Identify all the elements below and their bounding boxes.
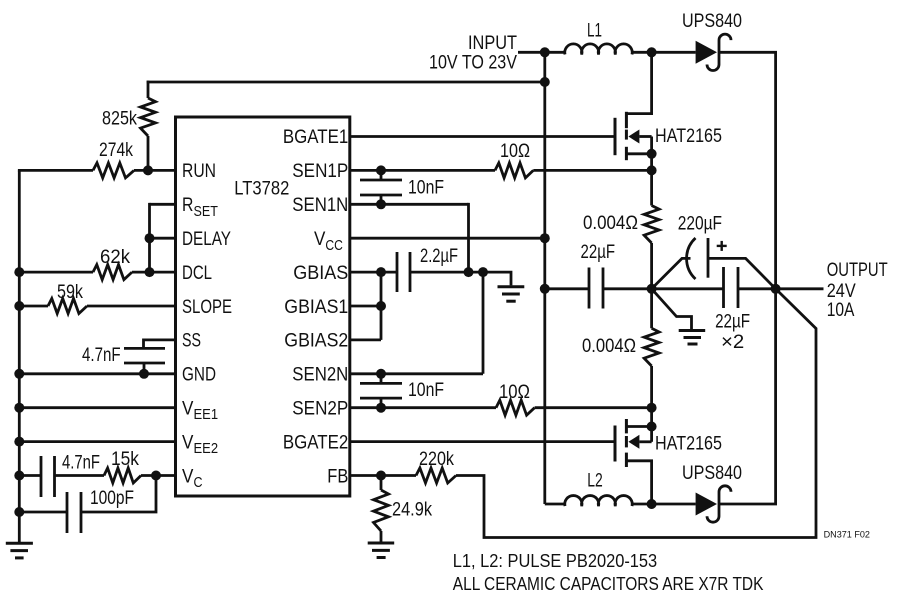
node Q1 source (647, 149, 657, 159)
label input voltage 10V TO 23V (429, 53, 517, 74)
pin label DCL (182, 263, 212, 284)
svg-text:4.7nF: 4.7nF (82, 345, 121, 366)
svg-text:×2: ×2 (721, 332, 744, 353)
capacitor C 2.2uF (397, 252, 410, 292)
transistor Q2 source stub (626, 461, 651, 504)
wire BGATE2 to Q2 gate (350, 440, 615, 443)
svg-text:SEN2P: SEN2P (292, 399, 348, 420)
pin label SLOPE (182, 297, 232, 318)
svg-text:DELAY: DELAY (182, 229, 231, 250)
wire 22uF to center node (603, 287, 652, 290)
pin label GBIAS (293, 263, 348, 284)
ground left rail (6, 543, 33, 558)
resistor R 24.9k (374, 476, 389, 532)
label 10nF top (408, 178, 444, 199)
wire input stub (518, 51, 545, 54)
pin label GND (182, 365, 216, 386)
node input (540, 47, 550, 57)
note L1 L2 PULSE (453, 550, 657, 571)
node Q2 drain stub (647, 422, 657, 432)
pin label FB (327, 466, 348, 487)
node SEN2N junction (376, 369, 386, 379)
svg-text:24V: 24V (827, 281, 856, 302)
diode D2 UPS840 (696, 486, 731, 522)
pin label VC (182, 466, 203, 491)
transistor Q2 channel segments (625, 419, 628, 467)
wire SEN2N pin (350, 372, 483, 375)
label UPS840 bottom (682, 463, 742, 484)
svg-text:24.9k: 24.9k (392, 500, 432, 521)
pin label VCC (314, 229, 343, 254)
resistor R 825k (141, 98, 156, 136)
label 24V (827, 281, 856, 302)
wire input rail to 22uF (545, 287, 589, 290)
wire 10ohm to Q1 source (533, 169, 651, 172)
wire output rail lower (774, 289, 777, 504)
wire 62k to DCL pin (132, 271, 176, 274)
node L2 switch (647, 499, 657, 509)
wire drain node to diode D1 (652, 51, 696, 54)
label 2.2uF (420, 246, 458, 267)
pin label SEN1P (292, 161, 348, 182)
label x2 (721, 332, 744, 353)
svg-text:HAT2165: HAT2165 (655, 433, 722, 454)
label 4.7nF compensation (62, 453, 100, 474)
svg-text:GBIAS: GBIAS (293, 263, 348, 284)
svg-text:62k: 62k (100, 247, 130, 268)
svg-text:L1: L1 (587, 21, 602, 42)
svg-text:10nF: 10nF (408, 380, 444, 401)
svg-text:22µF: 22µF (581, 242, 616, 263)
svg-text:SEN1N: SEN1N (292, 195, 348, 216)
capacitor C 10nF sense2 (360, 374, 402, 408)
svg-text:10A: 10A (827, 300, 855, 321)
svg-text:220k: 220k (419, 449, 454, 470)
svg-text:10nF: 10nF (408, 178, 444, 199)
node DELAY junction (145, 233, 155, 243)
transistor Q1 HAT2165 gate bar (614, 118, 617, 155)
label INPUT (468, 33, 517, 54)
svg-text:SET: SET (194, 203, 218, 220)
diode D1 UPS840 (696, 34, 731, 70)
capacitor C 100pF (67, 492, 81, 533)
wire SEN2P pin to 10ohm (350, 406, 496, 409)
node VCC input rail (540, 233, 550, 243)
wire output rail upper (774, 52, 777, 288)
svg-text:10Ω: 10Ω (499, 382, 530, 403)
svg-text:15k: 15k (111, 449, 139, 470)
label 10nF bottom (408, 380, 444, 401)
wire 4.7nF to 15k (55, 474, 105, 477)
wire 24.9k to ground (380, 531, 383, 542)
node GBIAS junction (376, 267, 386, 277)
node SLOPE left rail (14, 301, 24, 311)
wire node diagonal to 220uF (652, 258, 691, 288)
node L1 drain junction (647, 47, 657, 57)
capacitor C 220uF curved plate (687, 238, 696, 279)
svg-text:V: V (314, 229, 326, 250)
node GBIAS1 junction (376, 301, 386, 311)
svg-text:GND: GND (182, 365, 216, 386)
node center (647, 284, 657, 294)
svg-text:DCL: DCL (182, 263, 212, 284)
ic U1 LT3782 box (176, 117, 350, 496)
svg-text:10V TO 23V: 10V TO 23V (429, 53, 517, 74)
wire 15k to VC pin (141, 474, 176, 477)
label 62k (100, 247, 130, 268)
svg-text:EE1: EE1 (194, 406, 219, 423)
wire VEE1 pin (19, 406, 175, 409)
resistor R 0.004ohm top (644, 206, 659, 244)
wire SEN1P pin to 10ohm (350, 169, 495, 172)
label 22uF input (581, 242, 616, 263)
svg-text:C: C (194, 474, 203, 491)
wire node to ground (652, 289, 692, 330)
node SEN1P junction (376, 165, 386, 175)
pin label VEE2 (182, 433, 218, 458)
ground 24.9k (368, 543, 395, 558)
svg-text:UPS840: UPS840 (682, 463, 742, 484)
node DCL junction (145, 267, 155, 277)
label 4.7nF soft-start (82, 345, 121, 366)
transistor Q2 HAT2165 gate bar (614, 426, 617, 462)
wire 825k bottom to RUN (147, 136, 150, 170)
wire sense1 to node (650, 243, 653, 328)
wire GBIAS2 vertical tie (380, 272, 383, 340)
pin label GBIAS2 (284, 331, 348, 352)
wire GND pin (19, 372, 175, 375)
node 100pF left rail (14, 507, 24, 517)
wire D2 cathode to output rail (719, 503, 777, 506)
svg-text:OUTPUT: OUTPUT (827, 260, 888, 281)
svg-text:0.004Ω: 0.004Ω (583, 213, 638, 234)
svg-text:274k: 274k (99, 140, 133, 161)
label 22uF x2 (715, 312, 750, 333)
label 59k (57, 282, 83, 303)
label 220uF (678, 214, 722, 235)
wire 274k to RUN pin (134, 169, 176, 172)
node DCL left rail (14, 267, 24, 277)
node input rail top wire (540, 77, 550, 87)
svg-text:SS: SS (182, 331, 201, 352)
wire RSET pin stub (150, 203, 176, 206)
label 100pF (90, 488, 134, 509)
svg-text:EE2: EE2 (194, 440, 219, 457)
label 15k (111, 449, 139, 470)
wire SEN1N to GBIAS node (467, 203, 470, 272)
pin label DELAY (182, 229, 231, 250)
wire DCL left segment (19, 271, 93, 274)
transistor Q1 source stub (626, 152, 651, 155)
wire SEN1N pin (350, 203, 469, 206)
capacitor C 22uF input (589, 268, 603, 309)
pin label BGATE1 (283, 127, 348, 148)
wire 22uF x2 to output node (738, 287, 776, 290)
wire top rail to input node (147, 81, 545, 84)
wire SLOPE left segment (19, 305, 48, 308)
wire 220uF to output node (708, 258, 776, 288)
wire SS pin stub (144, 340, 176, 349)
label 0.004ohm bottom (582, 336, 636, 357)
inductor L2 (565, 496, 632, 507)
capacitor C 220uF straight plate (707, 238, 710, 278)
node VC left rail (14, 471, 24, 481)
svg-text:V: V (182, 399, 194, 420)
transistor Q2 body arrow (628, 427, 651, 449)
resistor R 62k (93, 265, 132, 280)
wire 825k top stub (147, 81, 150, 98)
wire input node to L1 (545, 51, 566, 54)
label 274k (99, 140, 133, 161)
svg-text:FB: FB (327, 466, 348, 487)
transistor Q2 drain stub (626, 425, 651, 428)
capacitor C 4.7nF soft-start (124, 348, 165, 363)
node SEN1N-GBIAS junction (464, 267, 474, 277)
svg-text:SEN1P: SEN1P (292, 161, 348, 182)
node GND left rail (14, 369, 24, 379)
wire L1 to drain node (632, 51, 652, 54)
svg-text:59k: 59k (57, 282, 83, 303)
transistor Q1 body arrow (628, 130, 651, 144)
pin label SEN1N (292, 195, 348, 216)
label HAT2165 top (655, 126, 722, 147)
svg-text:R: R (182, 195, 193, 216)
wire 10ohm to Q2 drain column (535, 406, 652, 409)
wire VCC pin to input rail (350, 237, 545, 240)
svg-text:GBIAS1: GBIAS1 (284, 297, 348, 318)
transistor Q1 drain stub (626, 52, 651, 113)
svg-text:SEN2N: SEN2N (292, 365, 348, 386)
wire switch node to diode D2 (652, 503, 696, 506)
resistor R 10ohm bottom (496, 400, 535, 415)
node output (771, 284, 781, 294)
node SEN2P junction (376, 403, 386, 413)
capacitor C 22uF x2 (724, 267, 739, 308)
node VEE2 left rail (14, 437, 24, 447)
wire DELAY pin stub (150, 237, 176, 240)
wire GBIAS2 pin stub (350, 338, 381, 341)
wire sense2 to Q2 drain (650, 366, 653, 427)
node VC junction (151, 471, 161, 481)
svg-text:22µF: 22µF (715, 312, 750, 333)
svg-text:825k: 825k (102, 108, 137, 129)
svg-text:ALL CERAMIC CAPACITORS ARE X7R: ALL CERAMIC CAPACITORS ARE X7R TDK (453, 573, 764, 594)
label L2 (587, 471, 603, 492)
wire L2 to switch node (632, 503, 652, 506)
wire GBIAS1 pin stub (350, 305, 381, 308)
transistor Q1 channel segments (625, 112, 628, 160)
svg-text:L2: L2 (587, 471, 603, 492)
node 2.2uF out junction (478, 267, 488, 277)
pin label BGATE2 (283, 433, 348, 454)
wire input rail to L2 (545, 503, 565, 506)
label 0.004ohm top (583, 213, 638, 234)
label 24.9k (392, 500, 432, 521)
wire VC left stub (19, 474, 41, 477)
pin label RSET (182, 195, 218, 220)
svg-text:0.004Ω: 0.004Ω (582, 336, 636, 357)
wire left rail (18, 170, 21, 542)
wire 100pF branch left (19, 511, 67, 514)
resistor R 59k (48, 299, 87, 314)
wire 4.7nF to GND line (143, 363, 146, 374)
svg-text:V: V (182, 433, 194, 454)
wire RSET-DELAY-DCL vertical (148, 203, 151, 272)
ground center node (679, 331, 706, 345)
wire 2.2uF to ground (410, 272, 511, 285)
svg-text:DN371 F02: DN371 F02 (824, 529, 870, 540)
ground 2.2uF (498, 287, 525, 301)
wire BGATE1 to Q1 gate (350, 135, 615, 138)
ic U1 name label LT3782 (234, 179, 289, 200)
svg-text:CC: CC (325, 237, 343, 254)
pin label GBIAS1 (284, 297, 348, 318)
label 220uF plus (717, 241, 727, 251)
node 22uF input rail (540, 284, 550, 294)
label 220k (419, 449, 454, 470)
label 825k (102, 108, 137, 129)
resistor R 274k (93, 163, 134, 178)
resistor R 0.004ohm bottom (644, 328, 659, 366)
svg-text:BGATE2: BGATE2 (283, 433, 348, 454)
pin label RUN (182, 161, 216, 182)
svg-text:LT3782: LT3782 (234, 179, 289, 200)
label 10A (827, 300, 855, 321)
capacitor C 4.7nF compensation (41, 456, 55, 497)
label HAT2165 bottom (655, 433, 722, 454)
svg-text:GBIAS2: GBIAS2 (284, 331, 348, 352)
node Q1 source SEN1P (647, 165, 657, 175)
svg-text:220µF: 220µF (678, 214, 722, 235)
svg-text:INPUT: INPUT (468, 33, 517, 54)
capacitor C 10nF sense1 (360, 170, 402, 204)
pin label SEN2P (292, 399, 348, 420)
svg-text:SLOPE: SLOPE (182, 297, 232, 318)
wire VEE2 pin (19, 440, 175, 443)
svg-text:V: V (182, 466, 194, 487)
wire input rail vertical (543, 52, 546, 504)
wire 100pF to VC junction (81, 476, 156, 513)
node FB junction (376, 471, 386, 481)
node RUN junction (143, 165, 153, 175)
pin label SS (182, 331, 201, 352)
label DN371 F02 (824, 529, 870, 540)
svg-text:100pF: 100pF (90, 488, 134, 509)
node Q2 drain SEN2P (647, 403, 657, 413)
label 10ohm top (500, 141, 530, 162)
wire output stub (776, 287, 824, 290)
wire SEN2N to 2.2uF node (482, 272, 485, 374)
svg-text:BGATE1: BGATE1 (283, 127, 348, 148)
svg-text:HAT2165: HAT2165 (655, 126, 722, 147)
node VEE1 left rail (14, 403, 24, 413)
label L1 (587, 21, 602, 42)
note ceramic capacitors (453, 573, 764, 594)
node SEN1N junction (376, 199, 386, 209)
svg-text:L1, L2: PULSE PB2020-153: L1, L2: PULSE PB2020-153 (453, 550, 657, 571)
wire 220k to feedback route (456, 289, 816, 538)
pin label SEN2N (292, 365, 348, 386)
svg-text:10Ω: 10Ω (500, 141, 530, 162)
svg-text:2.2µF: 2.2µF (420, 246, 458, 267)
label UPS840 top (682, 11, 742, 32)
svg-text:RUN: RUN (182, 161, 216, 182)
resistor R 15k (104, 468, 141, 483)
wire 59k to SLOPE pin (87, 305, 176, 308)
pin label VEE1 (182, 399, 218, 424)
svg-text:4.7nF: 4.7nF (62, 453, 100, 474)
node GND junction (139, 369, 149, 379)
wire RUN left segment (18, 169, 93, 172)
wire node to 22uF x2 (652, 287, 724, 290)
resistor R 10ohm top (495, 163, 533, 178)
label OUTPUT (827, 260, 888, 281)
resistor R 220k (416, 468, 456, 483)
label 10ohm bottom (499, 382, 530, 403)
svg-text:UPS840: UPS840 (682, 11, 742, 32)
inductor L1 (565, 44, 632, 55)
wire GBIAS pin stub (350, 271, 397, 274)
wire Q1 source column (650, 137, 653, 206)
wire D1 cathode to output rail (719, 51, 777, 54)
wire FB pin stub (350, 474, 416, 477)
